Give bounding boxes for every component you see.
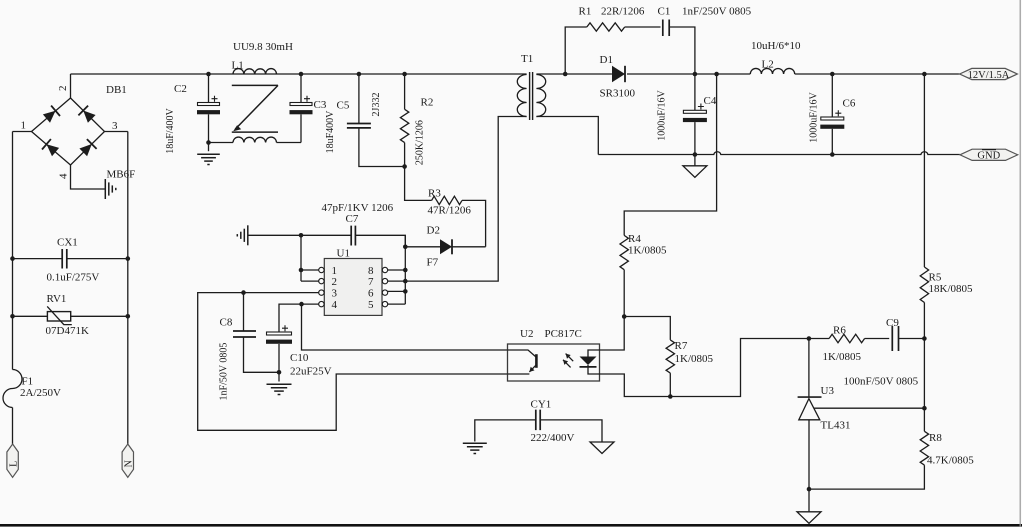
resistor R1 [587,23,625,31]
ground earth under C10 [267,383,292,385]
capacitor C7 [351,226,355,246]
wire C2 top [208,74,210,103]
svg-text:N: N [124,460,135,467]
svg-text:DB1: DB1 [106,84,127,96]
capacitor C4 [683,110,706,113]
svg-text:F1: F1 [22,376,34,388]
wire secondary bottom [536,117,598,155]
wire CY1 left [475,420,536,442]
node pin4 junction [299,302,304,307]
wire U3 anode [808,420,810,512]
inductor L1 bottom winding [233,137,277,142]
wire divider mid vertical [923,339,925,432]
wire U3 cathode [808,339,810,398]
resistor R8 [920,431,928,465]
wire rail D1 to L2 [717,73,751,75]
shunt regulator U3 TL431 [798,396,822,398]
wire R2 node to R3 [405,167,432,201]
wire C6 top [831,74,833,117]
wire C1 right down [669,27,695,74]
wire R2 bottom [404,143,406,167]
svg-text:6: 6 [368,287,374,299]
svg-text:R5: R5 [929,272,942,284]
wire RV1 right [71,315,128,317]
wire C4 gnd stub [694,155,696,166]
node R7 bottom junction [668,394,673,399]
svg-text:100nF/50V 0805: 100nF/50V 0805 [844,376,919,388]
wire C2 to earth [208,143,210,152]
node feedback tap [714,72,719,77]
inductor L1 top winding [233,69,277,74]
svg-text:07D471K: 07D471K [46,325,89,337]
pin circle U1 right 6 [382,290,387,295]
capacitor C1 [663,20,669,37]
svg-text:22uF25V: 22uF25V [290,366,332,378]
svg-text:250K/1206: 250K/1206 [415,120,426,165]
resistor R6 [829,334,865,342]
pin circle U1 right 5 [382,301,387,306]
svg-text:2A/250V: 2A/250V [20,387,61,399]
svg-text:1000uF/16V: 1000uF/16V [809,91,820,142]
wire L1 bottom right [277,142,302,144]
svg-text:MB6F: MB6F [107,169,136,181]
svg-text:C6: C6 [843,98,856,110]
svg-text:2J332: 2J332 [371,93,382,117]
emission arrow 2 [563,360,571,368]
node C2 top [206,72,211,77]
svg-text:R8: R8 [929,432,942,444]
pin circle U1 left 4 [319,301,324,306]
capacitor C3 [290,103,312,106]
node C6 bottom [830,152,835,157]
node C7 left junction [299,233,304,238]
wire U2 anode to R4 node [600,317,625,351]
ground MB6F earth symbol [104,179,106,199]
wire C9 right [899,338,925,340]
svg-text:1000uF/16V: 1000uF/16V [657,89,668,140]
capacitor CY1 [536,410,540,431]
fuse F1 [3,370,22,408]
wire pin2 stub [301,280,319,282]
svg-text:U2: U2 [520,328,533,340]
ground triangle below U3 [797,512,821,524]
wire C8 bottom [244,337,280,372]
svg-text:1nF/50V 0805: 1nF/50V 0805 [219,343,230,401]
svg-text:4: 4 [58,173,70,179]
varistor RV1 [47,312,70,321]
wire C5 bottom [359,128,405,167]
svg-text:C7: C7 [346,213,359,225]
ground earth below CY1 left [463,442,487,444]
node C2 bottom [206,140,211,145]
svg-text:L2: L2 [762,59,774,71]
wire bridge pin2 to top rail [70,74,72,98]
right border line [1020,0,1021,527]
wire feedback vertical [624,74,716,235]
svg-text:L1: L1 [232,60,244,72]
wire pin6 stub [388,290,406,292]
node R2 bottom junction [402,164,407,169]
pin circle U1 right 8 [382,267,387,272]
svg-text:CY1: CY1 [531,399,552,411]
wire D2 cathode [452,246,486,248]
svg-text:GND: GND [977,151,1000,162]
svg-text:RV1: RV1 [47,293,67,305]
wire pin5 stub [388,303,406,305]
resistor R5 [920,267,928,303]
wire L rail lower [12,408,14,445]
svg-text:R6: R6 [833,325,846,337]
ground triangle under C4 [683,166,707,178]
ground triangle below CY1 right [590,442,614,454]
svg-text:R2: R2 [421,97,434,109]
node C8 top junction [241,290,246,295]
wire C10 bottom [278,344,280,372]
wire R2 top [404,74,406,109]
svg-text:1K/0805: 1K/0805 [823,351,862,363]
pin circle U1 left 3 [319,290,324,295]
capacitor C9 [892,326,898,351]
transformer T1 secondary winding [536,75,545,117]
svg-text:0.1uF/275V: 0.1uF/275V [47,272,100,284]
wire C4 bottom [694,122,696,154]
svg-text:5: 5 [368,299,374,311]
node pin6 junction [403,289,408,294]
wire pin7 stub [388,280,406,282]
wire RV1 left [13,315,48,317]
svg-text:R1: R1 [579,6,592,18]
svg-text:2: 2 [57,86,69,92]
inductor L2 [750,68,794,74]
wire pin3 net [198,293,508,431]
svg-text:L: L [8,461,19,467]
wire N rail vertical [127,132,129,445]
wire GND rail [598,152,960,155]
svg-text:3: 3 [332,287,338,299]
diode DB1 bottom-left [47,144,60,156]
svg-text:18uF400V: 18uF400V [325,110,336,154]
svg-text:1: 1 [21,120,27,132]
emission arrow 1 [566,354,574,362]
wire U3 node to R6 [809,338,829,340]
svg-text:CX1: CX1 [57,237,78,249]
svg-text:R4: R4 [628,233,641,245]
net flag GND [960,149,1018,160]
wire top rail primary side [71,73,527,75]
node pin1 junction [299,268,304,273]
wire C7 right [355,235,405,247]
capacitor C10 [267,332,292,335]
svg-text:18K/0805: 18K/0805 [929,283,974,295]
node R5 tap [922,72,927,77]
node pin7 junction [403,279,408,284]
svg-text:U1: U1 [337,248,350,260]
wire C4 top [694,74,696,110]
node U3 anode junction [807,487,812,492]
node pin8 junction [403,268,408,273]
wire CX1 right [67,258,128,260]
core mark Z of L1 [232,85,278,132]
wire bridge pin4 to ground [71,165,105,189]
svg-text:C3: C3 [314,99,327,111]
svg-text:C10: C10 [290,352,309,364]
ground earth left of C7 [247,225,249,245]
diode DB1 top-right [83,111,95,123]
node C10 bottom junction [277,370,282,375]
svg-text:1K/0805: 1K/0805 [628,245,667,257]
wire L rail left vertical [12,132,14,370]
wire U3 ref [814,407,925,409]
node R4 bottom junction [622,314,627,319]
svg-text:UU9.8 30mH: UU9.8 30mH [233,41,293,53]
pin circle U1 left 1 [319,267,324,272]
svg-text:T1: T1 [521,53,533,65]
diode DB1 bottom-right [79,144,91,156]
diode D1 [612,66,625,82]
terminal L flag [7,444,18,477]
svg-text:PC817C: PC817C [545,328,582,340]
wire R8 bottom [809,465,924,489]
svg-text:D2: D2 [427,225,440,237]
svg-text:18uF/400V: 18uF/400V [165,107,176,153]
wire U1 left bus [300,235,302,281]
node C1 bottom junction [693,72,698,77]
overline on GND [982,149,996,151]
wire R5 top vertical [923,74,925,267]
wire L1 bottom left [209,142,234,144]
svg-text:12V/1.5A: 12V/1.5A [968,70,1010,81]
svg-text:C4: C4 [704,95,717,107]
capacitor CX1 [62,249,67,269]
svg-text:C1: C1 [658,6,671,18]
pin circle U1 left 2 [319,278,324,283]
wire to earth below C10 [278,372,280,381]
LED inside U2 [588,350,600,357]
svg-text:C8: C8 [220,317,233,329]
svg-text:C9: C9 [886,317,899,329]
svg-text:2: 2 [332,276,338,288]
diode D2 [440,239,452,254]
ground primary earth under C2 [197,153,220,155]
svg-text:7: 7 [368,276,374,288]
wire R5 bottom [923,303,925,339]
resistor R3 [432,196,462,204]
wire secondary top [536,73,565,75]
wire C5 top [358,74,360,124]
wire C8 top [243,293,245,331]
wire pin4 to optocoupler [302,304,508,350]
wire pin8 stub [388,269,406,271]
svg-text:SR3100: SR3100 [600,88,636,100]
wire R4 node to R7 [624,317,670,340]
node C9 right junction [922,336,927,341]
node RV1 left [10,314,15,319]
IC U1 body [324,259,382,316]
wire R7 bottom [669,373,671,396]
wire C3 top [300,74,302,103]
node RV1 right [126,314,131,319]
resistor R7 [666,340,674,373]
wire D1 anode rail [565,73,612,75]
node C5 top [357,72,362,77]
pin circle U1 right 7 [382,278,387,283]
wire rail L2 to 12V flag [795,73,960,75]
wire R6 to C9 [865,338,890,340]
svg-text:R7: R7 [675,340,688,352]
svg-text:F7: F7 [427,257,439,269]
svg-text:U3: U3 [821,385,835,397]
wire D2 anode [405,246,440,248]
svg-text:222/400V: 222/400V [531,432,575,444]
resistor R2 [400,109,408,142]
svg-text:TL431: TL431 [821,420,851,432]
node R2 top [402,72,407,77]
wire CX1 left [13,258,63,260]
wire bridge pin3 to right rail [105,131,128,133]
wire R1 to C1 [625,26,661,28]
node C3 top [299,72,304,77]
wire D1 cathode rail [627,73,717,75]
wire pin4 stub [279,304,319,332]
svg-text:D1: D1 [600,54,613,66]
wire pin1 stub [301,269,319,271]
node CX1 right [126,256,131,261]
diode DB1 top-left [43,111,56,123]
svg-text:4.7K/0805: 4.7K/0805 [927,455,974,467]
wire R4 bottom [623,270,625,317]
svg-text:R3: R3 [428,188,441,200]
svg-text:3: 3 [112,120,118,132]
wire bridge pin1 to left rail [13,131,32,133]
node D2 anode junction [403,245,408,250]
bridge rectifier DB1 outline [32,98,105,165]
svg-text:4: 4 [332,299,338,311]
svg-text:1K/0805: 1K/0805 [675,353,714,365]
wire CY1 right [540,420,602,442]
wire U1 right bus [404,235,406,304]
wire C6 bottom [831,129,833,155]
wire U2 cathode down [600,339,809,397]
resistor R4 [620,235,628,269]
svg-text:1nF/250V 0805: 1nF/250V 0805 [682,6,752,18]
transistor inside U2 [508,350,536,357]
node CX1 left [10,256,15,261]
wire C3 bottom [300,114,302,142]
node D1 anode junction [563,72,568,77]
optocoupler U2 body [508,344,600,381]
capacitor C2 [198,103,220,106]
bottom border line [0,524,1022,527]
capacitor C8 [233,331,256,337]
svg-text:C2: C2 [174,83,187,95]
terminal N flag [122,444,133,477]
wire primary bottom [405,117,526,282]
svg-text:C5: C5 [337,100,350,112]
net flag 12V/1.5A [960,68,1018,79]
wire R3 right [462,200,486,246]
node C4 bottom junction [693,152,698,157]
wire snubber up-left [565,27,587,74]
node C6 top [830,72,835,77]
wire C2 bottom [208,114,210,142]
transformer T1 primary winding [517,75,526,117]
capacitor C6 [821,117,844,120]
svg-text:22R/1206: 22R/1206 [601,6,645,18]
svg-text:10uH/6*10: 10uH/6*10 [751,40,801,52]
node REF junction [922,406,927,411]
wire C7 left [248,234,351,236]
capacitor C5 [347,124,371,128]
node U3 cathode junction [807,336,812,341]
svg-text:47R/1206: 47R/1206 [428,205,472,217]
transformer T1 core [530,72,533,120]
